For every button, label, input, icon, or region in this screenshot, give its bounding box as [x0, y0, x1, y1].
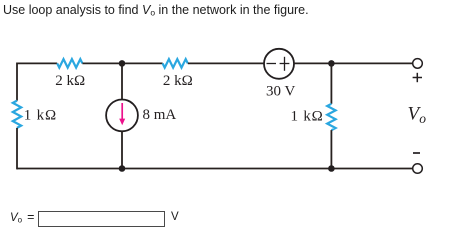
right rail wire lower — [330, 130, 332, 168]
bottom wire — [17, 168, 413, 170]
current source I1 8 mA — [106, 100, 138, 132]
svg-text:30 V: 30 V — [266, 84, 295, 100]
resistor R2 2 kOhm (top-middle) — [163, 59, 188, 68]
svg-text:2 kΩ: 2 kΩ — [163, 73, 193, 89]
svg-text:2 kΩ: 2 kΩ — [55, 73, 85, 89]
svg-text:o: o — [419, 111, 426, 126]
node bottom-middle — [119, 165, 126, 172]
wire to voltage source — [188, 62, 264, 64]
wire top-middle horizontal — [82, 62, 162, 64]
answer input box — [38, 211, 165, 227]
resistor R3 1 kOhm (left) — [13, 101, 21, 128]
right rail wire upper — [330, 63, 332, 103]
left rail wire upper — [16, 63, 18, 101]
svg-text:8 mA: 8 mA — [143, 107, 177, 123]
resistor R4 1 kOhm (right) — [327, 104, 335, 130]
middle rail wire upper — [121, 63, 123, 99]
voltage source V1 30 V — [264, 49, 294, 79]
wire from source to top-right node and terminal — [294, 62, 413, 64]
left rail wire lower — [16, 128, 18, 169]
wire top-left horizontal — [17, 62, 57, 64]
node bottom-right — [328, 165, 335, 172]
svg-text:1 kΩ: 1 kΩ — [290, 109, 323, 125]
minus sign at terminal — [413, 152, 420, 154]
terminal top (open circle) — [413, 59, 423, 69]
plus sign at terminal — [413, 73, 422, 82]
svg-text:1 kΩ: 1 kΩ — [24, 108, 57, 124]
unit V — [171, 211, 179, 223]
output voltage label Vo — [408, 104, 427, 127]
middle rail wire lower — [121, 131, 123, 168]
resistor R1 2 kOhm (top-left) — [57, 59, 82, 68]
node top-right — [328, 60, 335, 67]
node top-middle — [119, 60, 126, 67]
answer label Vo = — [10, 210, 34, 225]
terminal bottom (open circle) — [413, 164, 423, 174]
problem statement text — [3, 3, 309, 18]
